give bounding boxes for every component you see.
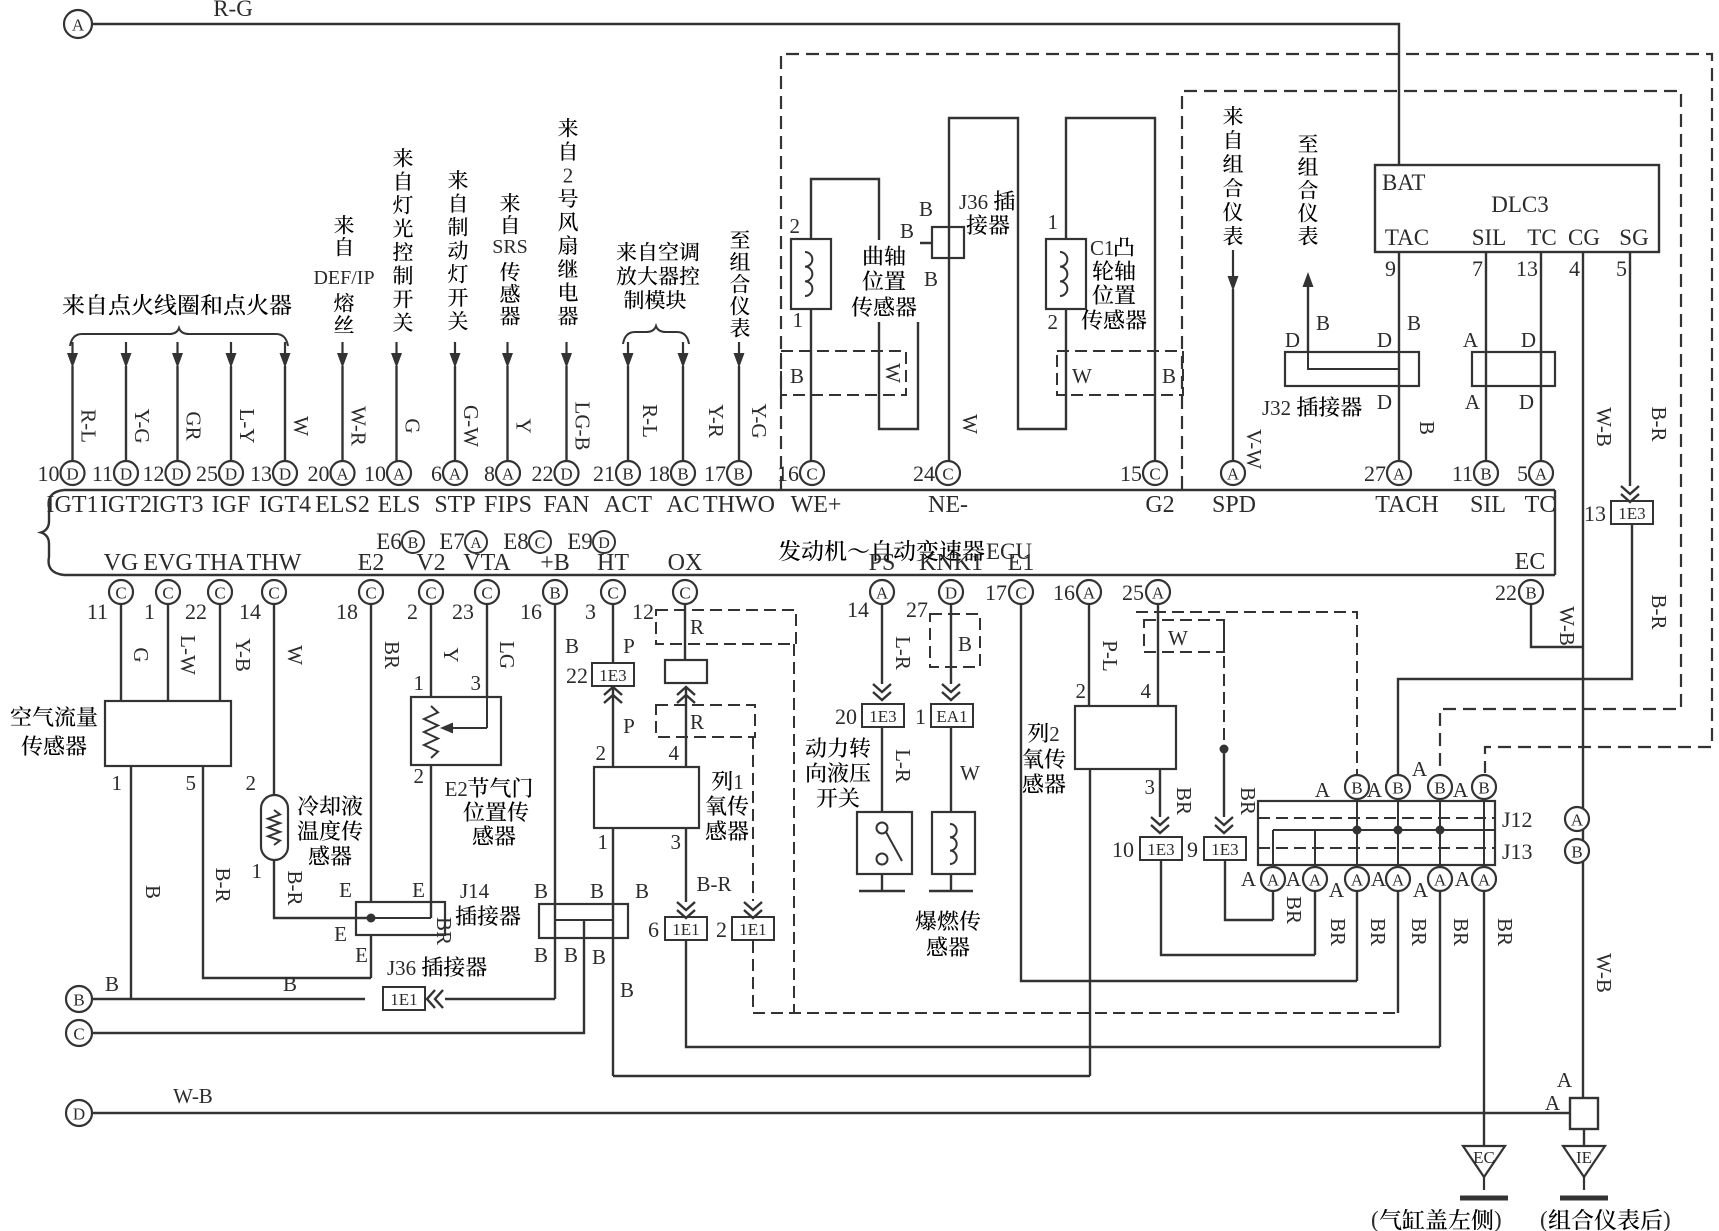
svg-text:B: B [283,972,297,996]
label B crank shield [790,364,804,388]
svg-text:14: 14 [847,597,869,622]
connector 1E1 J36 [383,987,443,1010]
svg-text:BR: BR [1236,787,1260,815]
svg-text:C: C [1149,465,1160,484]
label R-G [213,0,253,21]
label D below J32 [1377,390,1392,414]
connector J12/J13 box [1258,799,1495,867]
svg-text:E2: E2 [445,777,468,801]
connector 1E3 SG [1611,501,1653,524]
connector J36 square [932,227,964,258]
label W-B D line [173,1084,213,1108]
svg-text:E2: E2 [358,550,385,576]
label A bot2 [1329,878,1345,902]
svg-text:E: E [355,943,368,967]
label coolant pin 2 [246,771,257,795]
svg-text:A: A [1393,465,1406,484]
svg-text:B: B [592,945,606,969]
svg-text:D: D [1521,328,1536,352]
wire O2-1 pin1 B [612,828,614,938]
svg-text:GR: GR [182,411,206,440]
label E J14 topleft [339,878,352,902]
label crank pin 2 [790,214,801,238]
svg-text:B: B [924,267,938,291]
svg-text:W: W [960,761,980,785]
wire conn to C line [583,920,585,938]
svg-text:D: D [945,584,957,603]
svg-text:22: 22 [566,663,588,688]
svg-text:C: C [162,584,173,603]
svg-text:D: D [73,1105,85,1124]
label B below J36 [924,267,938,291]
J13 bottom pin A3 [1345,867,1369,891]
svg-text:FAN: FAN [543,492,589,518]
svg-text:4: 4 [1141,679,1152,703]
svg-text:THWO: THWO [703,492,775,518]
svg-text:EVG: EVG [143,550,192,576]
label 20 1E3 [835,704,857,729]
shield dashed box 2 outline [1182,91,1681,773]
wire HT upper [612,603,614,664]
svg-text:A: A [1241,867,1257,891]
svg-text:A: A [1315,778,1331,802]
svg-text:D: D [1519,390,1534,414]
label Y-G THWO [747,404,771,439]
svg-text:12: 12 [632,599,654,624]
label R lower [690,710,704,734]
J12 top pin B2 [1386,775,1410,799]
label P-L O2-2 [1098,640,1122,672]
svg-text:1: 1 [1048,210,1059,234]
svg-text:C: C [365,584,376,603]
wire crank pin2 loop [811,179,931,429]
svg-text:3: 3 [671,830,682,854]
svg-text:1E3: 1E3 [599,666,626,685]
wire OX lower [685,687,687,767]
label O2-2 pin 4 [1141,679,1152,703]
label D J32 right [1377,328,1392,352]
svg-text:9: 9 [1187,837,1198,862]
bank2 O2 sensor box [1075,706,1176,769]
wire KNK1 lower [950,727,952,812]
svg-text:D: D [120,465,132,484]
svg-text:R: R [690,615,704,639]
label B TACH wire [1415,421,1439,435]
knock sensor box [932,812,975,874]
svg-text:2: 2 [563,164,574,188]
label B left of J36 [900,219,914,243]
label from-light-control-switch [393,148,413,332]
connector EA1 [931,704,973,727]
svg-text:B-R: B-R [696,872,731,896]
svg-text:BR: BR [1326,918,1350,946]
label LG VTA [495,641,519,669]
label coolant pin 1 [252,859,263,883]
svg-text:B-R: B-R [1647,594,1671,629]
wire TAC to TACH [1398,252,1400,461]
connector square ground [1570,1098,1598,1129]
J12 top pin B1 [1345,775,1369,799]
wire AC input [678,342,689,461]
connector J32 box [1285,352,1419,386]
label TC [1527,225,1556,250]
label A SIL above [1463,328,1479,352]
label A bot0 [1241,867,1257,891]
ground IE [1560,1146,1608,1198]
svg-text:D: D [1377,390,1392,414]
svg-text:+B: +B [540,550,570,576]
label TPS pin 3 [471,671,482,695]
svg-text:L-Y: L-Y [235,409,259,444]
shield dashed box 1 outline [781,54,1712,773]
svg-text:AC: AC [666,492,699,518]
label B-R MAF5 [211,867,235,902]
label R-L ACT [638,404,662,438]
svg-text:A: A [1453,778,1469,802]
svg-text:E: E [334,922,347,946]
ECU connector id row E6 E7 E8 E9 [376,529,615,554]
svg-text:BR: BR [380,641,404,669]
svg-text:C: C [73,1025,84,1044]
label SIL [1472,225,1507,250]
svg-text:B: B [919,197,933,221]
wire J13-A3 [1356,891,1358,981]
wire B line to 1E1 [92,998,365,1000]
label BAT [1382,170,1425,195]
svg-text:W: W [283,645,307,665]
wire ACT input [623,342,634,461]
svg-text:11: 11 [92,461,113,486]
svg-text:B: B [1351,779,1362,798]
label G [401,418,425,433]
svg-text:B: B [622,465,633,484]
label from-brake-light-switch [448,170,468,330]
J13 bottom pin A6 [1472,867,1496,891]
wire IGT1 input [67,342,78,461]
connector J36 box lower [539,904,628,938]
svg-text:B: B [790,364,804,388]
svg-text:1: 1 [598,830,609,854]
svg-text:W-B: W-B [173,1084,213,1108]
svg-text:R: R [690,710,704,734]
svg-text:1E1: 1E1 [672,920,699,939]
svg-text:B: B [1392,779,1403,798]
svg-text:6: 6 [648,917,659,942]
svg-text:L-R: L-R [891,636,915,670]
svg-text:OX: OX [668,550,703,576]
svg-text:A: A [1557,1068,1573,1092]
wire J36-B down [612,938,614,1076]
svg-text:Y: Y [512,418,536,433]
svg-text:R-G: R-G [213,0,253,21]
svg-text:D: D [66,465,78,484]
label E J14 left [334,922,347,946]
svg-text:VG: VG [104,550,139,576]
svg-text:13: 13 [250,461,272,486]
svg-text:): ) [1663,1207,1671,1231]
label J13 legend [1502,839,1589,864]
label B line1 [105,972,119,996]
svg-text:A: A [1367,778,1383,802]
svg-text:V2: V2 [416,550,445,576]
label coolant-temp-sensor [298,795,363,866]
svg-text:22: 22 [1495,580,1517,605]
connector J14 box [356,902,445,935]
svg-text:17: 17 [985,580,1007,605]
svg-text:A: A [1392,871,1405,890]
label R upper [690,615,704,639]
wire V2 [430,603,432,697]
label L-R PS lower [891,749,915,783]
label O2-2 pin 2 [1076,679,1087,703]
crank shield dashed box [781,351,906,395]
svg-text:B: B [73,991,84,1010]
svg-text:D: D [560,465,572,484]
ECU top pin name row [47,492,1556,518]
svg-text:A: A [393,465,406,484]
svg-text:2: 2 [790,214,801,238]
svg-text:FIPS: FIPS [484,492,532,518]
svg-text:1: 1 [252,859,263,883]
label knock-sensor [916,910,981,956]
svg-text:1: 1 [144,599,155,624]
label W-B EC [1555,606,1579,646]
svg-text:Y-R: Y-R [704,404,728,438]
cam shield dashed box [1057,351,1183,395]
J12 top pin B3 [1428,775,1452,799]
svg-text:1E3: 1E3 [1147,840,1174,859]
connector 1E3 O2-2 [1140,837,1182,860]
svg-text:B: B [620,978,634,1002]
label from-ignition-coil-and-igniter [63,294,292,315]
svg-text:D: D [1377,328,1392,352]
wire E2 [370,603,372,902]
label A bot1 [1286,867,1302,891]
wire VG [120,603,122,701]
wire E1 [1021,603,1357,981]
svg-text:B: B [1480,465,1491,484]
svg-text:C: C [679,584,690,603]
J12 top pin B4 [1472,775,1496,799]
svg-text:P: P [623,634,635,658]
svg-text:A: A [336,465,349,484]
label 10 1E3 [1112,837,1134,862]
svg-text:A: A [502,465,515,484]
wire IGT3 input [172,342,183,461]
svg-text:B: B [1316,311,1330,335]
svg-text:W: W [1072,364,1092,388]
svg-text:B: B [900,219,914,243]
wire 1E3-9 to J13 [1225,861,1273,920]
svg-text:16: 16 [520,599,542,624]
wire 1E3-10 to J13 [1161,861,1315,955]
label GR [182,411,206,440]
wire FAN input [561,342,572,461]
wire MAF pin5 B-R [203,766,371,978]
label E J14 topright [412,878,425,902]
ground EC [1460,1146,1508,1198]
svg-text:A: A [876,584,889,603]
label from-SRS-sensor [492,193,528,325]
svg-text:B: B [733,465,744,484]
label A top1 [1315,778,1331,802]
wire PS upper [873,603,891,700]
svg-text:A: A [1412,757,1428,781]
label Y V2 [439,647,463,662]
label B conn bot2 [564,943,578,967]
label 13 [1516,256,1538,281]
label crankshaft-position-sensor [848,240,920,322]
J13 bottom pin A2 [1303,867,1327,891]
label 2 1E1 [716,917,727,942]
label B line2 [283,972,297,996]
ECU bottom pin name row [104,549,1546,576]
svg-text:23: 23 [452,599,474,624]
svg-text:A: A [72,16,85,35]
svg-text:W: W [1168,626,1188,650]
label A top4 [1453,778,1469,802]
svg-text:P: P [623,714,635,738]
svg-text:B: B [1415,421,1439,435]
svg-text:W-B: W-B [1592,953,1616,993]
wire OX upper [684,603,686,660]
svg-text:TACH: TACH [1375,492,1438,518]
wire KNK to bar [929,874,973,891]
wire TC [1540,252,1542,461]
label W crank shield [881,363,905,383]
cam sensor C1 coil box [1046,239,1086,309]
wire SG to 1E3 [1621,252,1639,502]
svg-text:15: 15 [1120,461,1142,486]
ECU top pin terminals [38,461,1554,486]
svg-text:C1: C1 [1090,236,1114,260]
label BR A4 [1407,918,1431,946]
junction dot shield O2-2 [1220,745,1229,754]
label B +B [565,634,579,658]
label bank2-O2-sensor [1023,722,1066,794]
wire SIL [1485,252,1487,461]
label cam pin 2 [1048,310,1059,334]
wire PS to bar [859,874,905,891]
svg-text:B: B [1478,779,1489,798]
wire ELS2 input [337,342,348,461]
svg-text:IGF: IGF [212,492,251,518]
svg-text:B: B [564,943,578,967]
label A square left [1545,1091,1561,1115]
label CG [1568,225,1600,250]
label from-combination-meter [1223,106,1243,246]
svg-text:EA1: EA1 [936,707,967,726]
shield dashed wire 1E1-2 [744,737,762,918]
label A top2 [1367,778,1383,802]
wire ELS input [391,342,402,461]
svg-text:B: B [1162,364,1176,388]
wire O2-2 pin bottom [1089,769,1091,1076]
label A top3 [1412,757,1428,781]
svg-text:E1: E1 [1008,550,1035,576]
label W KNK1 [960,761,980,785]
label A square top [1557,1068,1573,1092]
svg-text:A: A [1434,871,1447,890]
node C bottom-left [66,1020,92,1046]
label to-combination-meter THWO [730,230,750,337]
svg-text:D: D [1285,328,1300,352]
wire J13-A4 [1397,891,1399,1013]
label B J36-B wire [620,978,634,1002]
label BR E2 [380,641,404,669]
label J36-connector bottom [387,956,487,980]
svg-text:1E3: 1E3 [1211,840,1238,859]
svg-text:BR: BR [1172,787,1196,815]
svg-text:E: E [339,878,352,902]
wire square to ground [1583,1129,1585,1146]
label mass-air-flow-sensor [11,706,97,756]
label O2-1 pin 4 [669,741,680,765]
svg-text:B: B [534,879,548,903]
svg-text:C: C [268,584,279,603]
label LG-B [571,402,595,451]
svg-text:G: G [129,647,153,662]
wire O2-2 pin3 BR [1151,769,1169,833]
svg-text:G-W: G-W [459,405,483,447]
svg-text:10: 10 [1112,837,1134,862]
svg-text:PS: PS [869,550,896,576]
label 4 [1569,256,1580,281]
label W-B CG upper [1592,407,1616,447]
svg-text:G2: G2 [1145,492,1174,518]
ECU bottom pin terminals [87,580,1543,624]
svg-text:IGT3: IGT3 [152,492,204,518]
wire J32 to meter [1303,272,1314,352]
svg-text:A: A [1329,878,1345,902]
wire CG ground W-B [1582,252,1584,1098]
wire D line W-B [92,1112,1570,1114]
wire O2-1 pin3 B-R [677,828,695,918]
svg-text:24: 24 [913,461,935,486]
label P HT lower [623,714,635,738]
svg-text:A: A [1371,867,1387,891]
svg-text:BR: BR [1282,896,1306,924]
svg-text:1: 1 [915,704,926,729]
svg-text:6: 6 [431,461,442,486]
svg-text:B: B [141,885,165,899]
svg-text:A: A [1463,328,1479,352]
svg-text:B: B [1571,843,1582,862]
label B J32 left wire [1316,311,1330,335]
label G VG [129,647,153,662]
svg-text:W: W [958,414,982,434]
ECU label engine-AT-ECU [779,539,1033,564]
svg-text:A: A [1152,584,1165,603]
svg-text:10: 10 [364,461,386,486]
svg-text:3: 3 [1145,775,1156,799]
label B KNK shield [958,632,972,656]
svg-text:A: A [1309,871,1322,890]
svg-text:A: A [1465,390,1481,414]
svg-text:C: C [607,584,618,603]
svg-text:B: B [635,879,649,903]
svg-text:V-W: V-W [1242,429,1266,469]
label A bot4 [1413,878,1429,902]
svg-text:5: 5 [1616,256,1627,281]
svg-text:4: 4 [1569,256,1580,281]
label W THW [283,645,307,665]
label A bot3 [1371,867,1387,891]
svg-text:R-L: R-L [638,404,662,438]
label BR O2-2 pin3 [1172,787,1196,815]
svg-text:SRS: SRS [492,236,528,258]
TPS box [411,697,501,765]
